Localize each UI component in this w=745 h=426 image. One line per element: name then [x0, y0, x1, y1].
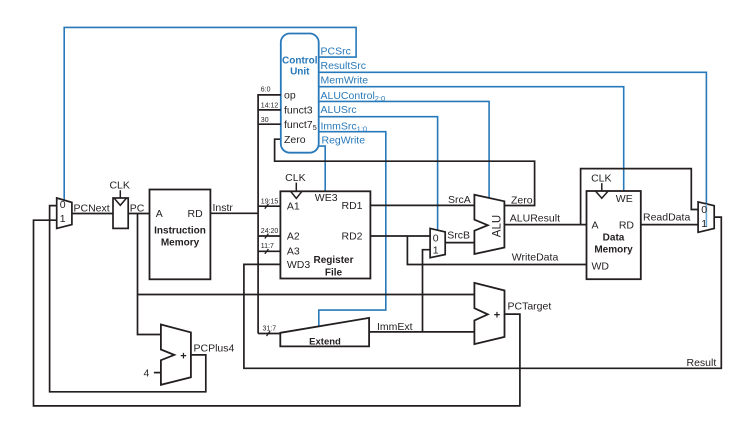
svg-text:Instruction: Instruction [154, 225, 206, 236]
mux PCNext (PCSrc mux) [57, 198, 72, 228]
extend unit [280, 318, 369, 347]
svg-text:WE3: WE3 [315, 192, 338, 204]
svg-text:Unit: Unit [290, 67, 310, 78]
svg-text:RegWrite: RegWrite [322, 135, 366, 147]
svg-text:Result: Result [687, 357, 717, 369]
svg-text:Instr: Instr [213, 202, 234, 214]
svg-text:ImmExt: ImmExt [377, 321, 413, 333]
register file [280, 191, 370, 278]
wire ImmExt (extend to SrcB mux and PCTarget adder) [369, 250, 474, 332]
wire MemWrite (blue, to data memory WE) [319, 87, 624, 192]
svg-text:RD: RD [188, 208, 204, 220]
svg-text:Control: Control [282, 56, 318, 67]
svg-text:ALUResult: ALUResult [510, 212, 560, 224]
wire Zero (ALU to control unit) [275, 139, 535, 205]
svg-text:funct3: funct3 [284, 104, 313, 116]
control unit [281, 34, 319, 153]
svg-text:PCSrc: PCSrc [321, 46, 351, 58]
svg-text:PCTarget: PCTarget [508, 300, 552, 312]
wire Instr [210, 212, 258, 214]
svg-text:0: 0 [701, 204, 707, 216]
svg-text:0: 0 [60, 199, 66, 211]
svg-text:6:0: 6:0 [261, 87, 271, 94]
svg-text:A: A [156, 208, 163, 220]
op-amp style ALU [474, 195, 504, 254]
wire ALUControl (blue, to ALU) [319, 101, 489, 198]
svg-text:Zero: Zero [284, 134, 306, 146]
svg-text:A: A [592, 219, 599, 231]
svg-text:A3: A3 [287, 246, 300, 258]
svg-text:RD1: RD1 [341, 200, 362, 212]
svg-text:Memory: Memory [161, 238, 200, 249]
register PC [113, 198, 128, 228]
svg-text:PCPlus4: PCPlus4 [194, 342, 235, 354]
svg-text:1: 1 [701, 218, 707, 230]
wire SrcB (mux to ALU) [445, 242, 474, 244]
svg-text:WriteData: WriteData [512, 252, 559, 264]
svg-text:File: File [325, 267, 343, 278]
svg-text:ALUSrc: ALUSrc [321, 104, 357, 116]
svg-text:RD: RD [619, 219, 635, 231]
svg-text:Memory: Memory [594, 245, 633, 256]
svg-text:ResultSrc: ResultSrc [321, 60, 367, 72]
adder PCPlus4 [161, 325, 191, 385]
svg-text:WE: WE [616, 193, 633, 205]
svg-text:11:7: 11:7 [261, 243, 274, 250]
wire ResultSrc (blue, to result mux select) [319, 72, 707, 227]
wire SrcA (RD1 to ALU) [370, 204, 474, 206]
svg-text:Data: Data [603, 232, 625, 243]
wire PCPlus4 (adder to PC mux input 0) [50, 206, 206, 392]
svg-text:WD3: WD3 [287, 259, 310, 271]
svg-text:24:20: 24:20 [261, 228, 279, 235]
svg-text:RD2: RD2 [341, 231, 362, 243]
wire PC [128, 213, 149, 215]
svg-text:19:15: 19:15 [261, 198, 279, 205]
svg-text:4: 4 [144, 368, 150, 380]
svg-text:1: 1 [60, 213, 66, 225]
svg-text:A2: A2 [287, 231, 300, 243]
node Instr bus vertical with taps [258, 95, 281, 334]
wire Result (mux to register file WD3 and PC mux) [244, 217, 721, 368]
instruction memory [150, 190, 211, 280]
svg-text:PC: PC [130, 202, 145, 214]
wire PCTarget (adder to PC mux input 1) [34, 220, 520, 406]
svg-text:funct75: funct75 [284, 119, 317, 132]
wire PCNext [72, 213, 113, 215]
svg-text:A1: A1 [287, 201, 300, 213]
svg-text:Extend: Extend [309, 337, 341, 348]
svg-text:+: + [180, 350, 186, 362]
wire WriteData (RD2 tap to data memory WD) [407, 236, 586, 265]
svg-text:CLK: CLK [285, 172, 305, 184]
svg-text:ReadData: ReadData [643, 211, 690, 223]
mux Result (ResultSrc mux) [698, 202, 714, 232]
svg-text:PCNext: PCNext [74, 202, 110, 214]
wire RegWrite (blue, to register file WE3) [318, 146, 325, 191]
svg-text:SrcB: SrcB [447, 230, 470, 242]
wire PC tap to adders [138, 214, 475, 335]
svg-text:30: 30 [261, 117, 269, 124]
svg-text:14:12: 14:12 [261, 103, 279, 110]
svg-text:CLK: CLK [591, 172, 611, 184]
svg-text:1: 1 [433, 245, 439, 257]
svg-text:Zero: Zero [511, 194, 533, 206]
wire ReadData (data memory to result mux input 1) [641, 224, 698, 226]
svg-text:WD: WD [592, 260, 610, 272]
svg-text:CLK: CLK [109, 179, 129, 191]
wire ResultSrc select (inside mux) [705, 204, 707, 227]
svg-text:Register: Register [313, 255, 353, 266]
wire RD2 to SrcB mux [370, 235, 430, 237]
svg-text:+: + [494, 310, 500, 322]
svg-text:ALU: ALU [492, 215, 504, 237]
wire ImmSrc (blue, to Extend) [319, 132, 386, 327]
mux SrcB (ALUSrc mux) [430, 228, 445, 257]
wire PCSrc (blue, control to PC mux select) [64, 27, 356, 200]
data memory [587, 191, 641, 279]
svg-text:op: op [284, 90, 296, 102]
adder PCTarget [474, 283, 504, 344]
wire ALUSrc (blue, to SrcB mux select) [319, 117, 438, 231]
wire ALUResult (ALU to data memory A, tap to result mux) [504, 169, 698, 225]
svg-text:SrcA: SrcA [448, 194, 471, 206]
svg-text:0: 0 [433, 232, 439, 244]
svg-text:MemWrite: MemWrite [321, 75, 369, 87]
